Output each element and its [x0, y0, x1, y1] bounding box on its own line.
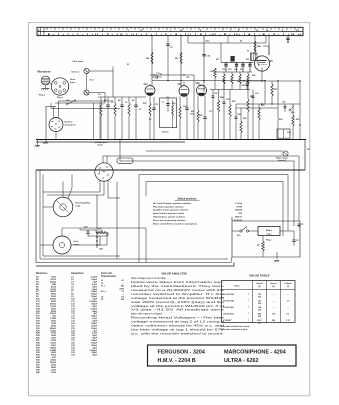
capacitor C41 — [282, 101, 287, 113]
svg-text:T1 {: T1 { — [101, 286, 105, 288]
svg-text:Recording Head Voltages.—The b: Recording Head Voltages.—The bias — [131, 317, 226, 320]
resistor R27 — [271, 81, 278, 104]
svg-text:R15: R15 — [172, 103, 175, 105]
svg-text:C6: C6 — [162, 102, 164, 104]
svg-text:Plug 3: Plug 3 — [39, 95, 46, 97]
svg-text:—: — — [287, 307, 289, 309]
svg-text:socket: socket — [97, 144, 103, 147]
svg-text:Plug 1: Plug 1 — [57, 97, 64, 99]
svg-text:—: — — [287, 294, 289, 296]
svg-text:R29: R29 — [232, 101, 235, 103]
wire drop 265 — [264, 80, 266, 104]
svg-text:Cathode: Cathode — [284, 282, 291, 285]
wire V3 anode loop — [257, 46, 269, 66]
wire V2a feed — [180, 36, 182, 87]
svg-text:Speed control operates switch: Speed control operates switch — [153, 212, 185, 215]
svg-text:measured on a 20,000Ω/V meter: measured on a 20,000Ω/V meter with the — [131, 289, 225, 292]
svg-text:Anode: Anode — [257, 282, 263, 285]
svg-text:{: { — [248, 311, 249, 315]
svg-text:C21: C21 — [240, 69, 243, 71]
valve V2a — [196, 83, 207, 96]
capacitor C33 — [80, 227, 96, 237]
capacitor C34 below dial — [286, 36, 289, 43]
svg-text:—: — — [122, 283, 124, 285]
svg-text:C25: C25 — [255, 93, 258, 95]
svg-text:Gram: Gram — [70, 79, 75, 81]
svg-text:V3 was −91.5V. All readings w: V3 was −91.5V. All readings were — [131, 309, 226, 312]
svg-text:Microphone: Microphone — [38, 71, 52, 73]
svg-text:205: 205 — [258, 303, 261, 305]
capacitor C5 — [106, 97, 109, 140]
svg-text:R31: R31 — [296, 119, 299, 121]
wire tone rail lower — [210, 89, 250, 91]
svg-text:Drive: Drive — [74, 241, 80, 243]
svg-text:C6: C6 — [125, 102, 127, 104]
resistor R33 — [88, 229, 108, 237]
capacitor C25 — [252, 90, 255, 140]
wire to T2 — [268, 36, 270, 55]
wire interstage row 2 — [150, 74, 194, 75]
svg-text:S9/S17: S9/S17 — [235, 217, 243, 219]
svg-text:motor: motor — [74, 243, 80, 246]
svg-text:—: — — [273, 300, 275, 302]
wire tone rail upper — [215, 43, 253, 68]
capacitor list — [71, 272, 98, 357]
svg-text:C13: C13 — [166, 97, 169, 99]
svg-text:C41: C41 — [282, 101, 285, 104]
wire socket pins down — [43, 181, 120, 199]
dial scale — [37, 27, 303, 36]
svg-text:recorder switched to Amplifier: recorder switched to Amplifier. H.t. lin… — [131, 293, 225, 296]
valve analysis text — [131, 271, 226, 335]
svg-text:Valve: Valve — [234, 285, 240, 287]
capacitor C16 block — [231, 56, 235, 61]
switch positions note — [153, 197, 243, 225]
svg-text:Plug a: Plug a — [266, 240, 273, 242]
svg-text:{: { — [248, 298, 249, 302]
svg-text:S12: S12 — [246, 59, 249, 61]
svg-text:C32: C32 — [198, 85, 201, 87]
svg-text:205: 205 — [258, 322, 261, 324]
capacitor C12 — [152, 97, 158, 140]
valve table — [222, 274, 296, 325]
svg-text:270Ω: 270Ω — [119, 288, 124, 290]
svg-text:R22: R22 — [250, 96, 253, 98]
resistor list — [36, 272, 56, 374]
svg-text:C5: C5 — [111, 102, 113, 104]
svg-text:{: { — [248, 305, 249, 309]
svg-text:R8: R8 — [118, 100, 120, 102]
wire rail E — [139, 175, 288, 263]
svg-text:R9: R9 — [132, 100, 134, 102]
capacitor C19 — [235, 62, 238, 72]
svg-text:Socket 2: Socket 2 — [64, 121, 73, 124]
svg-text:Pick input: Pick input — [73, 60, 84, 63]
svg-text:C22: C22 — [214, 93, 217, 95]
svg-text:(V): (V) — [287, 286, 290, 288]
wire deck return — [80, 228, 146, 263]
resistor R1 mains — [257, 236, 264, 258]
svg-text:C31: C31 — [186, 77, 189, 79]
wire socket pins up — [103, 156, 107, 163]
svg-text:C23: C23 — [226, 99, 229, 101]
wire mains loop — [231, 217, 300, 263]
svg-text:—: — — [273, 294, 275, 296]
svg-text:voltage at the junction W1/R22: voltage at the junction W1/R22 pin 3 of — [131, 305, 225, 308]
wire jack1 to V1a grid — [89, 67, 113, 98]
svg-text:Resistors: Resistors — [36, 272, 48, 275]
svg-text:ULTRA - 6262: ULTRA - 6262 — [224, 358, 258, 364]
svg-text:—: — — [122, 294, 124, 296]
svg-text:Multi-purpose: Multi-purpose — [95, 141, 108, 144]
svg-text:Series 1: Series 1 — [71, 70, 80, 73]
microphone — [38, 71, 52, 96]
svg-text:C18: C18 — [222, 69, 225, 71]
ground chassis left — [35, 140, 40, 148]
capacitor C2 mains — [292, 231, 298, 246]
svg-text:input: input — [267, 233, 272, 236]
svg-text:P.U.: P.U. — [296, 30, 300, 32]
svg-text:C7: C7 — [139, 109, 141, 111]
svg-text:S11: S11 — [216, 59, 219, 61]
svg-text:C19: C19 — [228, 69, 231, 71]
svg-text:50µF: 50µF — [92, 355, 97, 357]
drive motor — [53, 236, 79, 254]
resistor R7 — [100, 97, 102, 140]
svg-text:R20: R20 — [252, 75, 255, 77]
svg-text:S16: S16 — [237, 235, 240, 237]
svg-text:205: 205 — [258, 309, 261, 311]
svg-text:4.1: 4.1 — [121, 279, 124, 282]
dial cursor bracket — [188, 36, 266, 43]
svg-text:Volume: Volume — [162, 131, 169, 133]
wire rail F — [146, 182, 283, 237]
svg-text:Capacitors: Capacitors — [71, 272, 85, 275]
capacitor C14 — [185, 96, 188, 139]
jack socket 2 — [70, 79, 93, 95]
volume control box — [160, 98, 177, 133]
svg-text:W1: W1 — [307, 149, 310, 151]
resistor R9 — [114, 97, 116, 140]
svg-text:taken with respect to chassis.: taken with respect to chassis. — [131, 313, 163, 316]
svg-text:H.M.V. - 2204 B: H.M.V. - 2204 B — [158, 358, 196, 364]
svg-text:L1: L1 — [101, 280, 103, 282]
svg-text:S4/S26: S4/S26 — [235, 209, 243, 212]
svg-text:C1: C1 — [301, 224, 303, 226]
valve V3 — [254, 56, 273, 71]
resistor R28 — [217, 90, 219, 140]
resistor R22 — [247, 80, 249, 140]
capacitor C22 — [212, 90, 215, 140]
resistor R21 — [239, 72, 241, 90]
wire V2a feed drop — [190, 75, 194, 140]
svg-text:—: — — [273, 307, 275, 309]
resistor R15 — [179, 96, 181, 139]
svg-text:7.2†: 7.2† — [286, 320, 290, 322]
svg-text:R18: R18 — [199, 115, 202, 117]
svg-text:R32: R32 — [279, 119, 282, 121]
radio output socket A — [276, 151, 288, 162]
resistor R12 — [149, 103, 151, 140]
wire left rail — [46, 106, 56, 138]
wire tone rail mid — [215, 71, 252, 73]
svg-text:C17: C17 — [209, 111, 212, 113]
svg-text:head: head — [76, 205, 81, 207]
svg-text:R10: R10 — [190, 114, 193, 116]
wire head connections — [43, 175, 72, 208]
svg-text:{: { — [248, 318, 249, 322]
svg-text:VALVE ANALYSIS: VALVE ANALYSIS — [161, 271, 186, 275]
model title box — [148, 345, 297, 366]
capacitor C23 — [223, 80, 226, 140]
plug P1 — [46, 76, 69, 99]
wire motor connections — [40, 228, 100, 245]
svg-text:V3 EZ80*: V3 EZ80* — [223, 320, 232, 322]
svg-text:R12: R12 — [143, 103, 146, 105]
wire V2b feed — [203, 36, 205, 92]
svg-text:205: 205 — [258, 316, 261, 318]
wire mic to plug — [50, 83, 52, 84]
svg-text:VALVE TABLE: VALVE TABLE — [249, 274, 269, 278]
wire rail C — [120, 140, 294, 227]
resistor R4 — [146, 52, 153, 64]
component value labels — [98, 59, 310, 151]
svg-text:L5: L5 — [101, 299, 103, 301]
valve V1a — [144, 84, 156, 95]
wire deck loop outermost — [36, 263, 234, 267]
resistor R22 — [247, 72, 249, 90]
multi-purpose socket — [95, 141, 113, 181]
svg-text:V2b ECL86: V2b ECL86 — [223, 313, 234, 315]
wire jack chain — [86, 74, 88, 90]
svg-text:R16: R16 — [191, 111, 194, 113]
wire right drop 300 — [299, 81, 300, 140]
svg-text:(V): (V) — [272, 286, 275, 288]
resistor R23 — [258, 104, 260, 140]
svg-text:L2: L2 — [101, 283, 103, 285]
svg-text:below were taken from informat: below were taken from information sup- — [131, 281, 224, 284]
svg-text:7.5kΩ: 7.5kΩ — [51, 372, 57, 374]
resistor R18 — [197, 96, 199, 140]
trimmer C2 to chassis — [166, 36, 173, 52]
capacitor C21 — [248, 62, 251, 72]
svg-text:input: input — [70, 81, 75, 84]
svg-text:plied by the manufacturers. T: plied by the manufacturers. They were — [131, 285, 225, 288]
switch S16 — [232, 221, 249, 237]
svg-text:R7: R7 — [104, 100, 106, 102]
svg-text:a.c. with the recorder switche: a.c. with the recorder switched to recor… — [131, 333, 225, 336]
wire deck loop inner — [40, 170, 228, 259]
svg-text:S2: S2 — [160, 74, 162, 76]
svg-text:V1b ECC84: V1b ECC84 — [223, 299, 235, 302]
switch S2a — [66, 100, 75, 105]
mains input plug — [249, 227, 294, 242]
wire V3 cathode — [261, 71, 262, 82]
svg-text:TH1: TH1 — [287, 132, 291, 134]
svg-text:4: 4 — [99, 171, 100, 174]
svg-text:602: 602 — [121, 299, 124, 301]
svg-text:V1a ECC84: V1a ECC84 — [223, 293, 234, 296]
wire socket top leads — [46, 101, 113, 118]
svg-text:†Recorder switched to play.: †Recorder switched to play. — [220, 328, 248, 331]
wire lower row — [51, 103, 120, 109]
resistor R24 — [254, 41, 262, 52]
capacitor C9 — [134, 97, 137, 140]
svg-text:S7/10: S7/10 — [236, 206, 242, 208]
valve table footnotes — [220, 325, 250, 331]
svg-text:MARCONIPHONE - 4204: MARCONIPHONE - 4204 — [224, 350, 286, 356]
wire grid row — [98, 96, 146, 98]
svg-text:Radio output: Radio output — [276, 157, 288, 160]
svg-text:R28: R28 — [220, 97, 223, 99]
capacitor C11 — [152, 73, 162, 79]
wire ht rail — [236, 103, 300, 104]
wire output rail — [236, 80, 301, 81]
svg-text:1's/Cpl: 1's/Cpl — [235, 203, 242, 205]
svg-text:C35: C35 — [100, 231, 103, 233]
wire bias rail — [236, 107, 278, 109]
capacitor C18 — [224, 62, 227, 72]
svg-text:voltage measured at the juncti: voltage measured at the junction W1/R28 — [131, 297, 225, 300]
svg-text:C20: C20 — [234, 69, 237, 71]
capacitor C17 — [203, 96, 206, 140]
wire jack2 feed — [89, 93, 105, 104]
svg-text:Switch positions: Switch positions — [178, 197, 198, 200]
svg-text:*Recorder switched to record.: *Recorder switched to record. — [220, 325, 250, 328]
svg-text:Screen: Screen — [270, 283, 277, 285]
capacitor C30 — [202, 55, 211, 58]
svg-text:Mains: Mains — [266, 230, 273, 232]
capacitor C20 — [241, 62, 244, 72]
jack socket 1 — [71, 60, 89, 74]
svg-text:Play button operates switches: Play button operates switches — [153, 205, 185, 208]
svg-text:V1a {: V1a { — [101, 291, 106, 293]
chassis bus — [36, 140, 306, 143]
svg-text:R35: R35 — [100, 249, 103, 251]
capacitor C1 mains — [297, 156, 303, 228]
svg-text:205: 205 — [258, 296, 261, 298]
svg-text:(V): (V) — [258, 286, 261, 288]
wire record row — [55, 103, 105, 139]
wire interstage row — [152, 80, 266, 81]
wire output stage feed — [254, 36, 256, 55]
wire rail B — [103, 156, 299, 221]
svg-text:No.1 and 2 buttons operates sw: No.1 and 2 buttons operates switches — [153, 202, 192, 205]
thermistor block — [277, 129, 290, 138]
ground mains — [274, 252, 279, 262]
resistor R30 — [240, 108, 242, 140]
svg-text:1.5: 1.5 — [121, 291, 124, 293]
resistor R19 — [223, 72, 225, 90]
svg-text:C12: C12 — [155, 104, 158, 106]
valve V1b — [178, 82, 190, 97]
wire deck loop outer — [36, 170, 231, 263]
input socket SK2 — [49, 118, 77, 132]
svg-text:S1: S1 — [127, 64, 129, 66]
svg-text:Recording/Play: Recording/Play — [76, 203, 91, 205]
switch S14 — [289, 106, 295, 114]
wire dial to V1a grid — [151, 36, 153, 86]
capacitor C26 — [241, 81, 249, 90]
svg-text:Amplifier button operates swit: Amplifier button operates switches — [153, 209, 189, 212]
svg-text:{: { — [248, 292, 249, 296]
svg-text:S3: S3 — [149, 119, 151, 121]
transformer T2 — [247, 51, 257, 61]
resistor R20 — [231, 72, 233, 90]
svg-text:voltage measured at tag 2 of L: voltage measured at tag 2 of L2 using a — [131, 321, 225, 324]
wire socket to chassis — [55, 132, 57, 139]
wire V1a anode — [149, 95, 151, 103]
svg-text:the bias voltage at tag 1 shou: the bias voltage at tag 1 should be 57V — [131, 329, 225, 332]
svg-text:V2a ECL86: V2a ECL86 — [223, 307, 234, 309]
coils list — [101, 272, 124, 301]
capacitor C7 — [120, 97, 123, 140]
svg-text:Socket A: Socket A — [278, 159, 287, 162]
svg-text:Tilted buttons operate switche: Tilted buttons operate switches — [153, 216, 186, 219]
wire rail D dark — [36, 140, 305, 171]
svg-text:Valve voltages given in the ta: Valve voltages given in the table — [131, 277, 166, 280]
wire right drop 278 — [277, 81, 279, 140]
capacitor C35 tap cluster — [96, 195, 107, 251]
resistor R25 — [211, 68, 217, 90]
capacitor C24 — [235, 104, 238, 140]
wire rail A — [146, 150, 283, 152]
svg-text:S1 2: S1 2 — [90, 80, 94, 82]
svg-text:R23: R23 — [261, 105, 264, 107]
svg-text:valve voltmeter should be 40V: valve voltmeter should be 40V a.c. and — [131, 325, 225, 328]
svg-text:C2: C2 — [296, 240, 298, 242]
svg-text:R30: R30 — [243, 118, 246, 120]
svg-text:microphone: microphone — [64, 125, 76, 127]
resistor R11 — [128, 97, 130, 140]
record head — [53, 197, 91, 217]
resistor R31 — [292, 104, 294, 140]
resistor R29 — [229, 90, 231, 140]
svg-text:Transformers: Transformers — [101, 275, 117, 278]
svg-text:FERGUSON - 3204: FERGUSON - 3204 — [158, 350, 205, 356]
svg-text:was 200V (record), 215V (play): was 200V (record), 215V (play) and the — [131, 301, 225, 304]
svg-text:440: 440 — [121, 285, 124, 288]
connector block — [117, 158, 133, 163]
wire deck to rails — [62, 182, 117, 260]
wire x168 drop — [167, 52, 169, 80]
svg-text:8.5: 8.5 — [121, 296, 124, 298]
ground input socket — [43, 139, 48, 144]
svg-text:Mains switch S16 is located on: Mains switch S16 is located on microphon… — [153, 223, 198, 226]
resistor R6 — [175, 52, 182, 64]
svg-text:Tone control operating switche: Tone control operating switches — [153, 219, 187, 222]
